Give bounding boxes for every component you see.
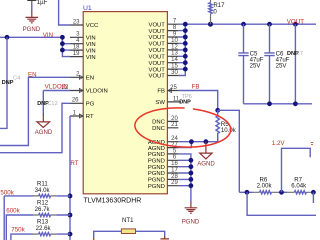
wire EN from corner to pin 2, down and out left edge	[0, 77, 70, 145]
svg-text:VOUT: VOUT	[149, 22, 166, 28]
svg-text:PGND: PGND	[148, 184, 165, 190]
wire VIN branch vertical to pins 3,4,18,19	[62, 37, 70, 56]
svg-text:DNP: DNP	[179, 99, 191, 105]
pin 2 EN input arrow	[79, 75, 83, 79]
svg-text:VIN: VIN	[86, 48, 96, 54]
resistor R12	[6, 200, 70, 240]
svg-text:19: 19	[73, 51, 80, 57]
wire VIN rail	[0, 36, 62, 38]
net-tie NT1	[121, 217, 135, 234]
capacitor C6	[264, 50, 289, 69]
IC U1 TLVM13630RDHR body	[83, 5, 167, 204]
pin 25 FB output arrow	[168, 89, 172, 93]
wire FB from pin 25 to R5 top	[178, 91, 217, 111]
svg-text:VCC: VCC	[86, 23, 99, 29]
svg-text:13: 13	[171, 51, 178, 57]
svg-text:VOUT: VOUT	[149, 42, 166, 48]
svg-text:15: 15	[171, 64, 178, 70]
U1 left pin numbers	[61, 19, 80, 116]
svg-text:12: 12	[171, 44, 178, 50]
U1 right pin stubs	[167, 24, 181, 186]
svg-text:25V: 25V	[276, 62, 288, 69]
resistor R7	[287, 176, 311, 194]
wire C7 DNP vertical	[294, 24, 296, 104]
wire stub below R7 right node	[312, 192, 314, 203]
node divider dots	[245, 190, 250, 195]
capacitor C5	[238, 50, 263, 69]
wire C12 vertical VLDOIN to AGND	[42, 91, 44, 115]
resistor R17	[209, 0, 225, 24]
ground AGND right of U1	[200, 142, 212, 159]
svg-text:18: 18	[73, 45, 80, 51]
wire 1.2V branch	[282, 148, 311, 192]
svg-text:VOUT: VOUT	[149, 48, 166, 54]
svg-text:DNC: DNC	[152, 120, 166, 126]
U1 left pin stubs	[70, 25, 83, 116]
svg-text:PGND: PGND	[148, 159, 165, 165]
svg-text:26: 26	[72, 98, 79, 104]
svg-text:AGND: AGND	[197, 160, 215, 167]
svg-text:VIN: VIN	[86, 55, 96, 61]
svg-text:22.6k: 22.6k	[36, 225, 52, 232]
wire C5 top lead	[243, 24, 245, 52]
node RT-R13 junction	[68, 232, 73, 237]
ground PGND top-left	[26, 11, 39, 23]
svg-text:14: 14	[171, 57, 178, 63]
wire C6 bottom lead	[269, 56, 271, 104]
svg-text:17: 17	[171, 167, 178, 173]
wire VOUT pin stub rail	[178, 23, 316, 25]
node C6 rail dot	[267, 22, 272, 27]
svg-text:TLVM13630RDHR: TLVM13630RDHR	[84, 198, 142, 205]
svg-text:26.7k: 26.7k	[35, 206, 51, 213]
node RT-R11 junction	[68, 194, 73, 199]
svg-text:500k: 500k	[0, 190, 14, 197]
node FB junction dot	[215, 108, 220, 113]
annotation red ellipse around DNC pins	[134, 106, 232, 150]
svg-text:750k: 750k	[11, 227, 25, 234]
svg-text:VOUT: VOUT	[149, 29, 166, 35]
svg-text:VIN: VIN	[86, 36, 96, 42]
U1 left pin names	[86, 23, 108, 120]
wire feedback divider rail	[239, 191, 313, 193]
svg-text:C7: C7	[296, 51, 303, 57]
wire C4 branch down and out left edge	[0, 37, 7, 128]
svg-text:DNP: DNP	[2, 80, 14, 86]
svg-text:EN: EN	[28, 71, 37, 78]
ground AGND under C12	[37, 114, 50, 128]
svg-text:16: 16	[171, 161, 178, 167]
node C5 rail dot	[241, 22, 246, 27]
resistor R6	[253, 176, 279, 194]
svg-text:RT: RT	[86, 114, 94, 120]
node VIN junction dots	[60, 35, 65, 40]
wire AGND return from divider	[247, 192, 316, 215]
svg-text:30: 30	[171, 70, 178, 76]
svg-text:VLDOIN: VLDOIN	[45, 83, 69, 90]
svg-text:VIN: VIN	[43, 32, 53, 39]
wire PGND bus	[178, 154, 191, 203]
wire NT1 left	[94, 231, 122, 238]
node R17 rail dot	[208, 22, 213, 27]
pin 1 RT input arrow	[79, 114, 83, 118]
svg-text:U1: U1	[83, 5, 92, 12]
node PGND bus dots	[189, 158, 194, 163]
svg-text:PGND: PGND	[148, 152, 165, 158]
wire PG from pin 26 down and out left edge	[0, 103, 70, 152]
svg-text:1µF: 1µF	[37, 0, 48, 6]
resistor R5	[216, 110, 237, 141]
svg-text:VOUT: VOUT	[149, 67, 166, 73]
resistor R13	[11, 219, 70, 240]
node VIN/C4 junction dot	[5, 35, 10, 40]
U1 right pin names	[148, 22, 166, 190]
svg-text:VLDOIN: VLDOIN	[86, 89, 108, 95]
svg-text:29: 29	[171, 180, 178, 186]
svg-text:VOUT: VOUT	[149, 74, 166, 80]
svg-text:NT1: NT1	[122, 217, 134, 224]
wire VOUT bus vertical	[178, 24, 185, 75]
svg-text:DNC: DNC	[152, 126, 166, 132]
resistor R11	[4, 180, 70, 240]
svg-text:PGND: PGND	[148, 171, 165, 177]
wire C6 top lead	[269, 24, 271, 52]
node VOUT bus dots	[183, 22, 188, 27]
svg-text:PGND: PGND	[148, 165, 165, 171]
capacitor 1uF top-left (cut off)	[27, 0, 47, 11]
net label fragment right edge	[311, 143, 313, 145]
wire C5 bottom lead	[243, 56, 245, 104]
svg-text:FB: FB	[157, 89, 165, 95]
svg-text:AGND: AGND	[148, 146, 165, 152]
svg-text:VOUT: VOUT	[287, 18, 304, 25]
node C6 bottom dot	[267, 101, 272, 106]
svg-text:FB: FB	[192, 84, 200, 91]
wire AGND from pin 24 to R5 bottom	[178, 137, 217, 142]
wire NT1 right to PGND	[136, 231, 165, 236]
wire VLDOIN to pin 22	[43, 90, 70, 92]
svg-text:10: 10	[171, 38, 178, 44]
wire RT from pin 1 down to resistor bank	[69, 116, 71, 240]
svg-text:21: 21	[171, 122, 178, 128]
svg-text:SW: SW	[155, 100, 165, 106]
svg-text:PG: PG	[86, 102, 95, 108]
svg-text:1.2V: 1.2V	[272, 140, 286, 147]
svg-text:600k: 600k	[6, 208, 20, 215]
svg-text:25V: 25V	[250, 62, 262, 69]
wire FB branch to divider	[218, 110, 240, 192]
svg-text:PGND: PGND	[148, 178, 165, 184]
wire pin 27 jog	[178, 142, 191, 148]
ground PGND below bus	[185, 202, 198, 213]
svg-text:VOUT: VOUT	[149, 55, 166, 61]
svg-text:EN: EN	[86, 76, 94, 82]
pin 22 VLDOIN input arrow	[79, 89, 83, 93]
svg-text:34.0k: 34.0k	[35, 187, 51, 194]
wire VCC from top edge to pin 23	[59, 0, 70, 25]
svg-text:6.04k: 6.04k	[291, 182, 307, 189]
svg-text:23: 23	[73, 19, 80, 25]
svg-text:PGND: PGND	[23, 26, 41, 33]
svg-text:10.0k: 10.0k	[221, 127, 237, 134]
svg-text:AGND: AGND	[35, 129, 53, 136]
node RT-R12 junction	[68, 213, 73, 218]
svg-text:VOUT: VOUT	[149, 61, 166, 67]
node C7 rail dot	[293, 22, 298, 27]
svg-text:C4: C4	[13, 76, 20, 82]
svg-text:28: 28	[171, 174, 178, 180]
svg-text:PGND: PGND	[182, 218, 200, 225]
svg-text:C12: C12	[47, 101, 57, 107]
U1 right pin numbers	[170, 19, 180, 187]
node AGND dots	[189, 139, 194, 144]
wire capacitor bottom rail	[244, 103, 313, 105]
svg-text:VIN: VIN	[86, 42, 96, 48]
ground AGND stub below NT1 left (cut off)	[93, 238, 95, 240]
node C7 bottom dot	[293, 101, 298, 106]
svg-text:VOUT: VOUT	[149, 35, 166, 41]
svg-text:2.00k: 2.00k	[257, 182, 273, 189]
ground PGND below NT1 right (cut off)	[160, 236, 169, 240]
svg-text:20: 20	[171, 116, 178, 122]
svg-text:RT: RT	[70, 160, 78, 167]
